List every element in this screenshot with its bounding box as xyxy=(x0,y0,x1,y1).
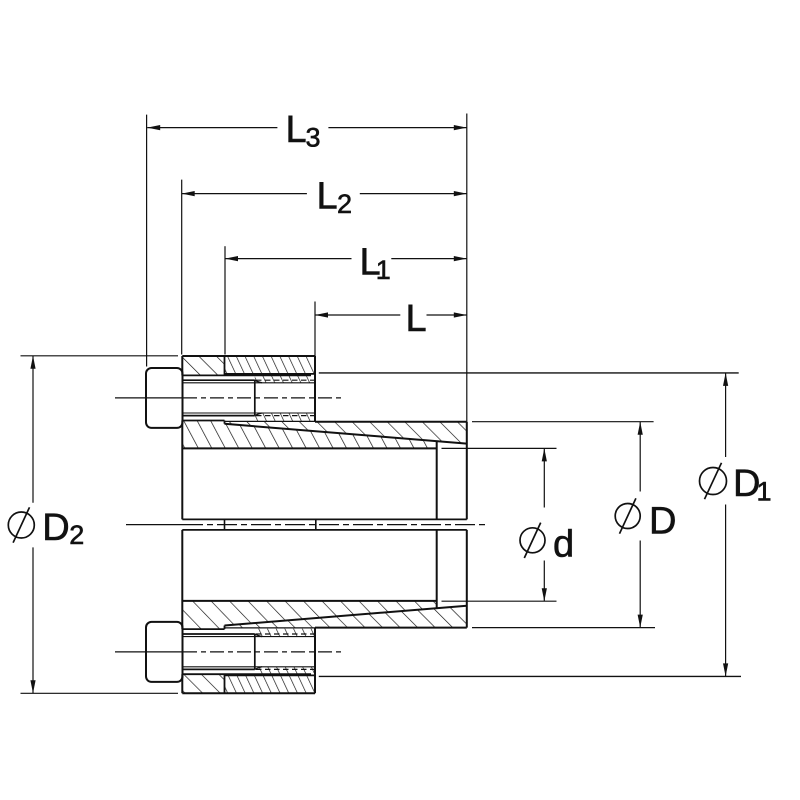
L dimension line xyxy=(315,314,467,316)
L left extension line xyxy=(314,302,316,357)
L1 left extension line xyxy=(224,246,226,354)
diameter symbol D2 xyxy=(8,507,34,542)
ring step line with D1 extension bottom xyxy=(319,675,741,677)
svg-text:1: 1 xyxy=(756,476,771,506)
svg-text:2: 2 xyxy=(69,520,84,550)
bottom bolt major thread lines xyxy=(183,634,255,669)
slit lower line xyxy=(182,529,467,531)
hidden thread lines top bolt xyxy=(256,380,314,415)
D2 dimension line xyxy=(32,356,34,694)
d arrows xyxy=(542,448,547,461)
L2 left extension line xyxy=(181,180,183,355)
bore bottom line xyxy=(182,600,436,602)
flange bottom edge xyxy=(182,692,315,694)
bottom bolt end face xyxy=(254,634,256,669)
svg-text:1: 1 xyxy=(376,255,391,285)
svg-text:L: L xyxy=(405,298,426,340)
L2 dimension line xyxy=(182,193,467,195)
svg-text:3: 3 xyxy=(305,123,320,153)
taper interface top xyxy=(225,424,467,444)
D1 dimension line xyxy=(725,373,727,677)
svg-text:2: 2 xyxy=(337,189,352,219)
D1 arrows xyxy=(723,373,728,386)
hatch: thread strip bottom bolt upper xyxy=(255,629,315,636)
slit ticks xyxy=(225,519,316,530)
L3 left extension line xyxy=(146,115,148,367)
hatch: outer taper ring top section xyxy=(225,421,467,443)
svg-text:D: D xyxy=(649,501,677,543)
nut upper boundary thin line bottom xyxy=(225,627,316,629)
L1 dimension line xyxy=(225,258,467,260)
bore top line xyxy=(182,447,436,449)
bottom bolt root lines xyxy=(183,637,316,667)
top bolt thread runout arcs xyxy=(255,380,262,415)
hatch: collar top section xyxy=(225,356,316,374)
top screw head xyxy=(146,368,183,428)
bottom bolt hole and shank line xyxy=(182,629,311,674)
top bolt major thread lines xyxy=(183,380,255,415)
right common extension line xyxy=(466,114,468,422)
d extension lines xyxy=(442,448,557,601)
L3 dimension line xyxy=(147,127,467,129)
outer ring top edge xyxy=(315,421,467,423)
bottom bolt centerline xyxy=(115,651,183,653)
hatch: thread strip top bolt lower xyxy=(255,413,315,421)
part left edge segments xyxy=(181,356,183,693)
svg-text:L: L xyxy=(316,175,337,217)
D dimension line xyxy=(639,422,641,628)
flange top edge xyxy=(182,355,315,357)
top bolt root lines xyxy=(183,383,316,413)
main centerline xyxy=(126,524,183,526)
top bolt hole and shank line xyxy=(182,375,311,420)
hatch: outer taper ring bottom section xyxy=(225,606,467,628)
hatch: flange plate top section xyxy=(182,356,224,375)
svg-text:L: L xyxy=(285,109,306,151)
L2 arrows xyxy=(182,191,195,196)
d dimension line xyxy=(543,448,545,601)
slit upper line xyxy=(182,518,467,520)
taper interface bottom xyxy=(225,606,467,626)
ring step line with D1 extension top xyxy=(319,372,739,374)
plate-collar boundary x=224.5 xyxy=(224,356,226,693)
D arrows xyxy=(638,422,643,435)
L arrows xyxy=(315,312,328,317)
hidden thread lines bottom bolt xyxy=(256,634,314,669)
collar right face x=315 xyxy=(314,356,316,693)
bore end verticals x=436.7 xyxy=(436,441,438,608)
bottom bolt thread runout arcs xyxy=(255,634,262,669)
hatch: thread strip bottom bolt lower xyxy=(255,667,315,676)
L3 arrows xyxy=(147,125,160,130)
diameter symbol d xyxy=(520,523,545,558)
bottom screw head xyxy=(146,622,183,682)
nut lower boundary thin line top xyxy=(225,420,316,422)
L1 arrows xyxy=(225,256,238,261)
D extension lines xyxy=(472,422,655,628)
collar top edge bottom half xyxy=(225,674,316,676)
hatch: thread strip top bolt upper xyxy=(255,375,315,383)
svg-text:d: d xyxy=(553,523,574,565)
top bolt end face xyxy=(254,380,256,415)
outer ring bottom edge xyxy=(315,627,467,629)
part right face x=466.8 xyxy=(466,422,468,628)
diameter symbol D xyxy=(615,498,640,533)
hatch: inner sleeve top section xyxy=(182,421,436,449)
D2 arrows xyxy=(30,356,35,369)
D2 extension lines xyxy=(21,356,179,694)
svg-text:D: D xyxy=(42,507,70,549)
top bolt centerline xyxy=(115,397,183,399)
hatch: inner sleeve bottom section xyxy=(182,601,436,629)
hatch: flange plate bottom section xyxy=(182,674,224,693)
diameter symbol D1 xyxy=(700,463,727,499)
collar bottom edge top half xyxy=(225,373,316,375)
hatch: collar bottom section xyxy=(225,675,316,693)
